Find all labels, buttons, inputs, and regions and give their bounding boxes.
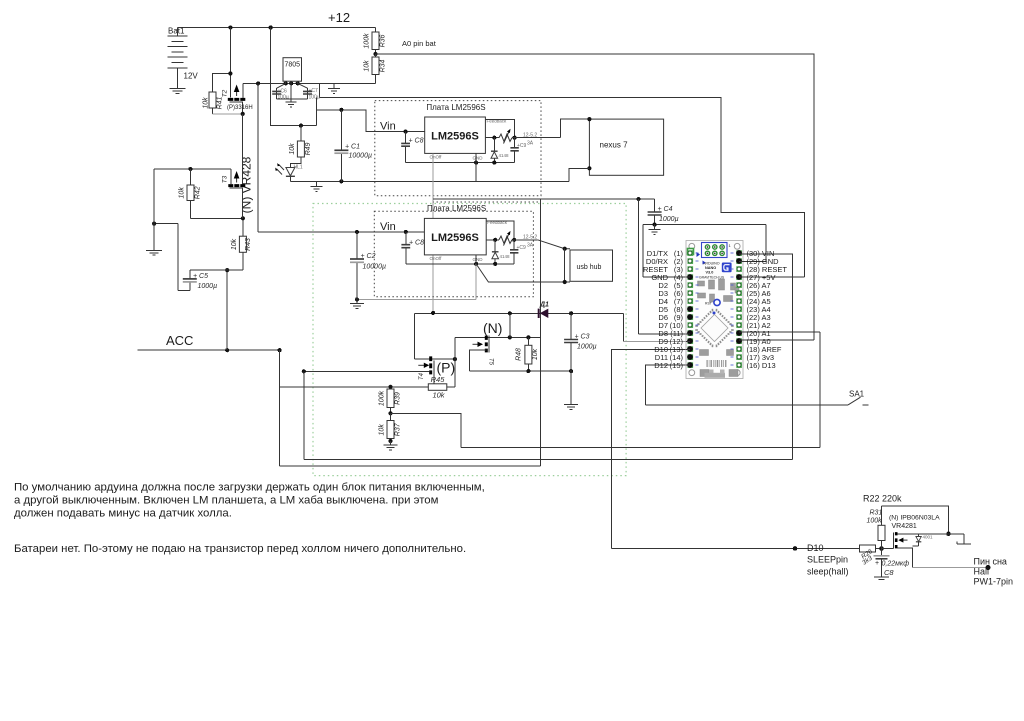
wire pin 27 +5V (745, 276, 804, 278)
wire output #2 (486, 238, 537, 242)
svg-text:Д1: Д1 (539, 302, 549, 309)
svg-text:C8: C8 (884, 568, 894, 577)
wire usb hub left drop (565, 249, 570, 282)
node usb hub plus (563, 247, 567, 251)
wire pin stubs (686, 254, 746, 365)
svg-text:10k: 10k (231, 238, 238, 250)
wire D10 sleep drop (611, 349, 689, 548)
IC LM2596S #2 (424, 218, 507, 262)
wire R22 loop (882, 506, 951, 536)
ground under C3 (564, 371, 578, 409)
wire ACC horizontal (138, 348, 282, 352)
svg-text:100k: 100k (867, 518, 883, 525)
svg-text:Bat1: Bat1 (168, 27, 185, 36)
resistor R36 (364, 28, 387, 55)
wire R49 feed line (271, 28, 317, 128)
svg-text:100µ: 100µ (309, 94, 320, 100)
svg-text:+ C2: + C2 (361, 253, 376, 260)
svg-text:(P)3316H: (P)3316H (227, 105, 253, 111)
svg-text:+ C5: + C5 (193, 273, 208, 280)
svg-text:LM2596S: LM2596S (431, 131, 479, 143)
IC LM2596S #1 (425, 117, 507, 161)
svg-text:T5: T5 (488, 358, 494, 366)
wire T4 gate line from junction (302, 369, 430, 373)
svg-text:По умолчанию ардуина должна по: По умолчанию ардуина должна после загруз… (14, 482, 485, 494)
node C5/R43 (225, 268, 229, 272)
wire Vin2 (258, 230, 424, 234)
resistor R48 (515, 337, 539, 371)
wire ACC riser at 540.6 (540, 199, 542, 466)
svg-text:10k: 10k (532, 348, 539, 360)
svg-text:OnOff: OnOff (430, 256, 443, 261)
wire output slant to usb hub plus (538, 240, 570, 249)
wire cap bottoms (277, 98, 308, 100)
svg-text:12-5.2: 12-5.2 (523, 133, 537, 139)
block usb hub (570, 250, 613, 281)
node ground left (152, 222, 156, 226)
svg-text:GND: GND (473, 156, 484, 161)
svg-text:+ C8: + C8 (409, 239, 424, 246)
node on +12 rail (R49 drop) (269, 25, 273, 29)
svg-text:(N): (N) (483, 320, 502, 336)
transistor T4 (P) (415, 356, 457, 383)
wire Vin2 feed (switched 12V drop) (257, 83, 259, 232)
resistor R45 (280, 359, 455, 399)
switch SA1 (848, 390, 869, 405)
svg-text:Батареи нет. По-этому не подаю: Батареи нет. По-этому не подаю на транзи… (14, 543, 466, 555)
diode on LM1 output (491, 138, 509, 163)
svg-text:HL1: HL1 (294, 165, 303, 171)
svg-text:T2: T2 (221, 89, 228, 97)
ground center of 7805 caps (286, 83, 297, 106)
wire feedback loop #2 (486, 221, 514, 240)
node R37 bottom (388, 439, 392, 443)
svg-text:nexus 7: nexus 7 (600, 141, 629, 150)
svg-text:Vin: Vin (380, 121, 396, 133)
module Arduino Nano board (686, 241, 743, 379)
ground at C4 (649, 225, 661, 235)
svg-text:1000µ: 1000µ (577, 344, 597, 351)
wire D12 to switch SA1 (645, 365, 848, 405)
capacitor C4 1000µ (648, 199, 679, 225)
ground under C8 (874, 577, 889, 580)
wire A0 pin row (744, 339, 814, 341)
svg-text:10k: 10k (379, 424, 386, 436)
ground at C2 (350, 299, 364, 308)
capacitor C6 (272, 83, 289, 100)
node R39/R37 divider (388, 411, 392, 415)
svg-text:100k: 100k (379, 390, 386, 406)
resistor R42 (179, 169, 243, 218)
svg-text:R49: R49 (305, 142, 312, 155)
wire GND pin 4 (643, 225, 694, 278)
svg-text:V3.0: V3.0 (706, 271, 714, 275)
svg-text:+12: +12 (328, 10, 350, 25)
ground at MOSFET drain loop (957, 542, 971, 545)
resistor R31 (867, 506, 886, 548)
wire source to hall pin (gray) (912, 565, 990, 570)
wire A0 pin bat (376, 54, 814, 340)
wire LM2 GND drop to ground bus (475, 255, 477, 300)
svg-text:SLEEPpin: SLEEPpin (807, 555, 848, 565)
svg-text:usb hub: usb hub (577, 264, 602, 271)
svg-text:T4: T4 (419, 372, 425, 380)
dashed outline Плата LM2596S #2 (374, 211, 533, 296)
svg-text:T3: T3 (221, 175, 228, 183)
wire D8 enable riser (639, 199, 689, 334)
svg-text:+C7: +C7 (309, 88, 319, 94)
svg-text:(N) IPB06N03LA: (N) IPB06N03LA (889, 515, 940, 522)
svg-text:10k: 10k (289, 143, 296, 155)
svg-text:4148: 4148 (500, 254, 511, 259)
svg-text:LM2596S: LM2596S (431, 232, 479, 244)
node A0 divider (373, 52, 377, 56)
svg-text:R41: R41 (217, 96, 224, 109)
svg-text:1000µ: 1000µ (659, 216, 679, 223)
svg-text:Пин сна: Пин сна (974, 557, 1007, 567)
ground under battery (169, 88, 185, 93)
svg-text:R42: R42 (195, 186, 202, 199)
svg-text:3A: 3A (527, 243, 534, 249)
transistor T3 (N) VR428 (221, 114, 245, 218)
wire output #1 (485, 136, 560, 140)
svg-text:3A: 3A (527, 141, 534, 147)
svg-text:OnOff: OnOff (430, 155, 443, 160)
svg-text:+ C1: + C1 (345, 144, 360, 151)
capacitor C1 10000µ (334, 110, 372, 182)
wire divider to A1 loop (391, 332, 820, 447)
wire D9 drop (624, 313, 689, 341)
wire pin 29 GND riser (739, 225, 766, 262)
capacitor C8 #2 (401, 232, 424, 264)
svg-text:+ C8: + C8 (409, 138, 424, 145)
svg-text:R48: R48 (515, 348, 522, 361)
wire ACC loop to 540.6 riser (280, 350, 541, 466)
capacitor C2 10000µ (350, 232, 386, 300)
svg-text:100k: 100k (364, 33, 371, 49)
svg-text:R31: R31 (870, 510, 883, 517)
wire +12 rail (177, 27, 375, 29)
capacitor C8 #1 (401, 132, 423, 163)
wire nexus 7 return (569, 168, 589, 181)
ground on rail near R34 (328, 83, 340, 93)
svg-text:(P): (P) (437, 360, 456, 376)
svg-text:GND: GND (473, 257, 484, 262)
node MOSFET gate (879, 546, 884, 551)
svg-text:10k: 10k (179, 187, 186, 199)
svg-text:1000µ: 1000µ (198, 283, 218, 290)
transistor VR4281 N-MOSFET (882, 532, 964, 567)
svg-text:4148: 4148 (499, 153, 510, 158)
svg-text:D10: D10 (807, 543, 824, 553)
wire LM1 GND pin drop (475, 153, 477, 181)
svg-text:D12: D12 (654, 361, 668, 370)
resistor R34 (364, 54, 387, 83)
LED HL1 (275, 163, 303, 181)
svg-text:+C9: +C9 (517, 143, 527, 149)
svg-text:R39: R39 (395, 392, 402, 405)
wire LM2 bottom rail (406, 262, 514, 266)
wire LM2 GND slant to usb hub minus (476, 264, 565, 282)
svg-text:R45: R45 (431, 375, 446, 384)
svg-text:12V: 12V (184, 72, 199, 81)
capacitor C3 1000µ (564, 313, 597, 371)
wire LM1 output to nexus 7 (561, 119, 590, 138)
svg-text:NANO: NANO (705, 266, 716, 270)
capacitor C8 0,22мкф (874, 549, 910, 578)
svg-text:ACC: ACC (166, 333, 193, 348)
wire LM1 bottom rail (406, 161, 515, 165)
svg-text:10000µ: 10000µ (363, 264, 387, 271)
wire junction loop to VIN (304, 371, 793, 459)
svg-text:должен подавать минус на датчи: должен подавать минус на датчик холла. (14, 508, 232, 520)
resistor R39 (379, 385, 402, 414)
svg-text:7805: 7805 (285, 62, 301, 69)
trimmer on output #1 (499, 129, 537, 147)
battery Bat1 (167, 28, 187, 88)
svg-text:Плата LM2596S: Плата LM2596S (427, 204, 486, 213)
svg-text:12-5.2: 12-5.2 (523, 235, 537, 241)
svg-text:10k: 10k (364, 60, 371, 72)
svg-text:R43: R43 (245, 238, 252, 251)
svg-text:PW1-7pin: PW1-7pin (974, 577, 1014, 587)
wire gray ground bus to C2 (355, 297, 476, 301)
svg-text:10k: 10k (432, 390, 445, 399)
node T3 gate (241, 216, 245, 220)
trimmer on output #2 (499, 231, 537, 249)
wire OnOff control (gray, LM1-LM2 enable) (432, 153, 434, 313)
svg-text:+: + (875, 560, 879, 567)
node usb hub minus (563, 280, 567, 284)
svg-text:R22 220k: R22 220k (863, 494, 902, 504)
wire T5 drain to D1 node (509, 313, 511, 337)
svg-text:SA1: SA1 (849, 390, 865, 399)
svg-text:VR4281: VR4281 (892, 523, 917, 530)
resistor R37 (379, 413, 402, 441)
svg-text:ARDUINO: ARDUINO (703, 262, 720, 266)
svg-text:R37: R37 (395, 422, 402, 436)
svg-text:Hall: Hall (974, 567, 990, 577)
capacitor C9 #1 (510, 138, 526, 163)
capacitor C5 1000µ (154, 224, 227, 291)
svg-text:а другой выключенным. Включен: а другой выключенным. Включен LM планшет… (14, 495, 439, 507)
svg-text:(15): (15) (670, 361, 684, 370)
wire D1 line (regulators enable node) (415, 311, 624, 316)
wire C4 bottom node to VIN pin 29 GND (643, 223, 766, 227)
resistor R41 (203, 74, 243, 114)
svg-text:0,22мкф: 0,22мкф (882, 561, 910, 568)
node on +12 rail (T2 source drop) (228, 25, 232, 29)
block nexus 7 (587, 117, 663, 175)
transistor T2 (P)3316H (221, 28, 252, 117)
svg-text:Плата LM2596S: Плата LM2596S (426, 103, 485, 112)
transistor T5 (N) (455, 320, 541, 371)
wire feedback loop #1 (485, 119, 514, 137)
svg-text:10000µ: 10000µ (349, 153, 373, 160)
ground left (146, 224, 162, 256)
ground under R37 (384, 441, 398, 450)
wire ground rail (LM1 / Cf / nexus return) (290, 179, 569, 183)
svg-text:+ C3: + C3 (575, 334, 590, 341)
svg-text:R34: R34 (380, 59, 387, 72)
resistor R26 (860, 545, 882, 567)
wire 7805 input rail (243, 81, 376, 97)
svg-text:4001: 4001 (923, 535, 934, 540)
diode on LM2 output (492, 240, 510, 264)
wire C5/R43 node riser to ACC (226, 270, 228, 350)
svg-text:A0 pin bat: A0 pin bat (402, 39, 437, 48)
svg-text:(16) D13: (16) D13 (747, 361, 776, 370)
wire 7805 output long line to +5V pin (319, 97, 804, 277)
wire sleep line D10 (611, 546, 859, 551)
green dotted region box (313, 204, 626, 476)
svg-text:sleep(hall): sleep(hall) (807, 567, 849, 577)
svg-text:+C9: +C9 (517, 245, 527, 251)
ground on rail (311, 181, 323, 191)
regulator U 7805 (283, 58, 302, 84)
resistor R43 (227, 218, 252, 270)
capacitor C7 (298, 83, 320, 100)
svg-text:Vin: Vin (380, 221, 396, 233)
wire source/R48/C3 bottom line (470, 369, 574, 373)
svg-text:+ C4: + C4 (658, 206, 673, 213)
capacitor C9 #2 (510, 240, 526, 264)
svg-text:10k: 10k (203, 97, 210, 109)
diode Д1 (539, 302, 549, 319)
wire C4 top line (433, 197, 654, 201)
wire pin 30 VIN loop (745, 254, 793, 460)
wire T3 source line (154, 167, 231, 224)
body diode of VR4281 (912, 534, 933, 546)
wire Vin1 feed (317, 97, 425, 133)
resistor R49 (289, 126, 312, 167)
chip QFP ATmega328 (695, 309, 733, 347)
svg-text:RST: RST (705, 302, 712, 306)
wire T4 source riser (414, 313, 416, 359)
dashed outline Плата LM2596S #1 (375, 101, 541, 196)
svg-text:R36: R36 (380, 34, 387, 47)
